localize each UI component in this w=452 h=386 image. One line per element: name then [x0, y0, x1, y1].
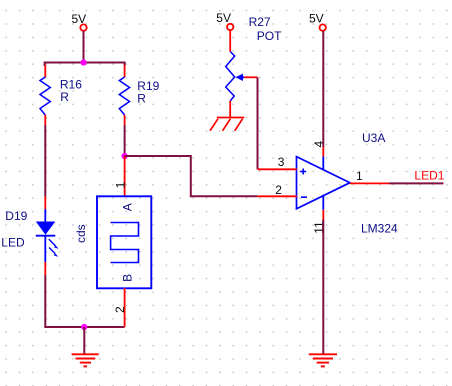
svg-text:2: 2: [275, 183, 282, 197]
wire J3 to ground: [83, 327, 85, 354]
svg-text:LM324: LM324: [361, 222, 398, 236]
svg-text:R: R: [60, 90, 69, 104]
svg-text:3: 3: [278, 155, 285, 169]
resistor R16: [40, 65, 82, 125]
photoresistor cds pin 1: [113, 156, 127, 197]
svg-text:2: 2: [113, 306, 127, 313]
wire bottom horizontal: [44, 326, 124, 328]
wire 5V P3 to op-amp pin 4: [322, 31, 324, 147]
ground earth right: [309, 354, 337, 366]
svg-text:LED1: LED1: [414, 169, 444, 183]
svg-text:A: A: [120, 203, 134, 211]
junction J2: [122, 153, 128, 159]
svg-text:R: R: [137, 91, 146, 105]
svg-text:5V: 5V: [72, 12, 87, 26]
svg-text:1: 1: [113, 181, 127, 188]
power 5V P2: [216, 11, 233, 30]
ground earth left: [72, 354, 99, 366]
svg-text:5V: 5V: [309, 12, 324, 26]
ground signal pot: [210, 118, 244, 131]
svg-text:R27: R27: [249, 15, 271, 29]
power 5V P1: [72, 12, 87, 31]
svg-text:D19: D19: [5, 209, 27, 223]
wire top horizontal: [45, 63, 125, 67]
wire 5V P1 to junction J1: [83, 31, 85, 63]
junction J1: [80, 59, 86, 65]
wire R16 to D19: [44, 125, 46, 197]
wire op-amp output to LED1: [389, 182, 444, 184]
wire D19 to bottom: [44, 275, 46, 327]
svg-text:cds: cds: [74, 224, 88, 243]
wire pot wiper to op-amp pin 3: [257, 77, 259, 169]
wire R19 to junction J2: [124, 125, 126, 156]
potentiometer R27: [226, 15, 282, 118]
wire J2 to op-amp pin 2: [125, 156, 258, 196]
power 5V P3: [309, 12, 326, 31]
svg-text:4: 4: [312, 141, 326, 148]
op-amp U3A: [258, 131, 399, 235]
svg-text:1: 1: [356, 169, 363, 183]
svg-text:U3A: U3A: [362, 131, 385, 145]
wire op-amp pin 11 to ground: [322, 220, 324, 355]
svg-text:LED: LED: [1, 236, 25, 250]
photoresistor cds pin 2: [113, 288, 127, 327]
svg-text:5V: 5V: [216, 11, 231, 25]
junction J3: [81, 324, 87, 330]
resistor R19: [119, 65, 159, 125]
diode D19 LED: [1, 197, 58, 275]
photoresistor cds body: [74, 196, 151, 288]
svg-text:POT: POT: [257, 29, 282, 43]
svg-text:B: B: [120, 274, 134, 282]
